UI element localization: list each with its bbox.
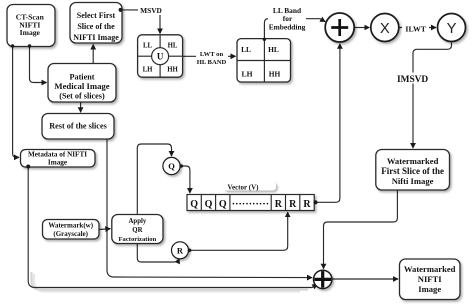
svg-text:Q: Q: [168, 161, 175, 171]
svg-text:Image: Image: [418, 284, 441, 294]
svg-text:MSVD: MSVD: [140, 6, 162, 15]
svg-text:HL: HL: [168, 43, 178, 50]
svg-text:R: R: [177, 246, 184, 256]
svg-text:U: U: [157, 52, 164, 62]
svg-text:Metadata of NIFTI: Metadata of NIFTI: [28, 151, 87, 159]
svg-text:Image: Image: [20, 28, 41, 37]
svg-text:(Set of slices): (Set of slices): [59, 92, 105, 101]
svg-text:Apply: Apply: [129, 218, 147, 225]
svg-text:Q: Q: [205, 199, 213, 210]
svg-text:Select First: Select First: [77, 11, 116, 20]
svg-text:Medical Image: Medical Image: [54, 81, 109, 91]
svg-text:HH: HH: [167, 67, 178, 74]
svg-text:Factorization: Factorization: [119, 236, 157, 243]
svg-text:LH: LH: [143, 67, 154, 74]
svg-text:Watermarked: Watermarked: [387, 156, 439, 166]
svg-text:Q: Q: [190, 199, 198, 210]
svg-text:R: R: [289, 199, 297, 210]
svg-text:LWT on: LWT on: [200, 51, 224, 58]
svg-text:Slice of the: Slice of the: [77, 22, 115, 31]
svg-text:Embedding: Embedding: [269, 23, 306, 32]
svg-text:...........: ...........: [232, 197, 269, 208]
svg-text:R: R: [275, 199, 283, 210]
svg-text:Vector (V): Vector (V): [228, 183, 260, 191]
svg-text:ILWT: ILWT: [405, 24, 426, 33]
svg-text:HL BAND: HL BAND: [197, 59, 227, 66]
svg-text:LL: LL: [143, 43, 153, 50]
svg-text:X: X: [380, 21, 390, 37]
svg-text:First Slice of the: First Slice of the: [381, 166, 444, 176]
svg-text:Q: Q: [219, 199, 227, 210]
svg-text:LL: LL: [241, 45, 251, 54]
svg-text:Watermark(w): Watermark(w): [48, 222, 93, 230]
svg-text:Nifti Image: Nifti Image: [392, 176, 434, 186]
svg-text:Watermarked: Watermarked: [404, 264, 456, 274]
svg-text:QR: QR: [132, 227, 142, 234]
svg-text:Rest of the slices: Rest of the slices: [49, 122, 107, 131]
svg-text:HH: HH: [269, 70, 281, 79]
svg-text:IMSVD: IMSVD: [397, 75, 428, 85]
svg-text:Y: Y: [447, 21, 457, 37]
svg-text:LH: LH: [242, 70, 253, 79]
svg-text:NIFTI: NIFTI: [418, 274, 443, 284]
svg-text:NIFTI Image: NIFTI Image: [73, 33, 119, 42]
svg-text:HL: HL: [268, 45, 279, 54]
svg-text:R: R: [303, 199, 311, 210]
svg-text:(Grayscale): (Grayscale): [53, 230, 88, 238]
svg-text:Image: Image: [48, 159, 67, 167]
